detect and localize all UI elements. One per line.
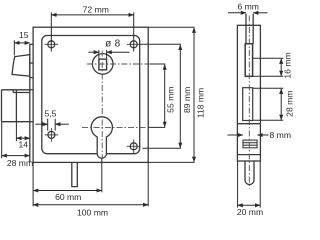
right side view: body outline — [237, 25, 260, 161]
front view: lock cover rounded rectangle — [42, 36, 140, 154]
svg-text:16 mm: 16 mm — [283, 52, 293, 78]
label 60 mm — [55, 192, 81, 202]
right side view: cylinder housing bullet — [245, 161, 254, 185]
centre line horizontal through cylinder — [82, 126, 148, 128]
dimension 55 mm (hub to cylinder distance) — [148, 64, 165, 127]
label 8 mm — [270, 130, 291, 140]
right side view: spindle nut block — [243, 140, 257, 148]
screw hole top-left with centre mark — [45, 41, 59, 48]
screw hole bottom-left with centre cross — [45, 128, 59, 142]
svg-text:60 mm: 60 mm — [55, 192, 81, 202]
right side view: inner slot rectangle — [243, 88, 253, 121]
dimension 20 mm (body depth) — [238, 162, 261, 208]
front view: lock back plate outline — [33, 27, 148, 162]
centre line vertical through hub and cylinder — [101, 51, 103, 159]
euro profile cylinder keyhole — [91, 117, 112, 158]
screw hole bottom-right with centre cross — [127, 140, 141, 154]
dimension 89 mm (case height) — [140, 44, 181, 148]
bottom tab below plate — [72, 163, 78, 187]
dimension 28 mm (case depth) — [2, 122, 30, 158]
label 100 mm — [77, 208, 108, 218]
svg-text:15: 15 — [19, 30, 29, 40]
label 118 mm (rotated) — [196, 88, 206, 118]
dimension 15 (latch projection) — [14, 40, 29, 55]
right side view: vertical centre line — [248, 16, 250, 189]
dimension 16 mm (hub block height) — [253, 58, 284, 76]
svg-text:89 mm: 89 mm — [182, 87, 192, 113]
svg-text:118 mm: 118 mm — [196, 88, 206, 118]
dimension 8 mm (spindle nut) — [228, 134, 269, 136]
right side view: hub block — [245, 44, 252, 77]
left side view: latch bolt wedge — [12, 55, 30, 77]
svg-text:14: 14 — [19, 140, 29, 150]
screw hole top-right with centre mark — [127, 41, 140, 48]
right side view: 6 mm top slot walls — [246, 14, 253, 44]
label 55 mm (rotated) — [165, 87, 175, 113]
svg-text:100 mm: 100 mm — [77, 208, 108, 218]
label 16 mm (rotated) — [283, 52, 293, 78]
dimension ø 8 (square follower) — [88, 50, 129, 58]
dimension 6 mm (slot width) — [228, 12, 268, 14]
label 89 mm (rotated) — [182, 87, 192, 113]
label 28 mm (left) — [7, 158, 33, 168]
label ø 8 — [105, 38, 120, 49]
dimension 118 mm (overall height) — [148, 27, 194, 162]
dimension 100 mm (plate width) — [33, 162, 148, 206]
svg-text:72 mm: 72 mm — [83, 4, 109, 14]
label 5,5 — [45, 108, 57, 118]
label 15 — [19, 30, 29, 40]
left side view: faceplate strip with segment lines — [30, 44, 33, 162]
label 20 mm — [237, 207, 263, 217]
right side view: divider lines — [237, 124, 260, 155]
dimension 5,5 (screw hole diameter) — [35, 119, 69, 131]
label 72 mm — [83, 4, 109, 14]
svg-text:ø 8: ø 8 — [105, 38, 120, 49]
centre line horizontal through hub — [87, 63, 150, 65]
spindle hub circle with 8 mm square follower hole — [92, 54, 113, 75]
label 28 mm (rotated, right) — [285, 91, 295, 117]
svg-text:28 mm: 28 mm — [285, 91, 295, 117]
dimension 14 (case front to faceplate) — [16, 122, 29, 141]
left side view: case depth box — [2, 90, 30, 122]
svg-text:28 mm: 28 mm — [7, 158, 33, 168]
dimension 60 mm (backset to cylinder) — [33, 158, 102, 206]
svg-text:8 mm: 8 mm — [270, 130, 291, 140]
svg-text:6 mm: 6 mm — [237, 2, 258, 12]
dimension 28 mm (inner slot height, right view) — [253, 88, 284, 120]
label 14 — [19, 140, 29, 150]
label 6 mm — [237, 2, 258, 12]
dimension 72 mm (screw hole spacing, top) — [51, 12, 133, 51]
svg-text:5,5: 5,5 — [45, 108, 57, 118]
svg-text:55 mm: 55 mm — [165, 87, 175, 113]
svg-text:20 mm: 20 mm — [237, 207, 263, 217]
